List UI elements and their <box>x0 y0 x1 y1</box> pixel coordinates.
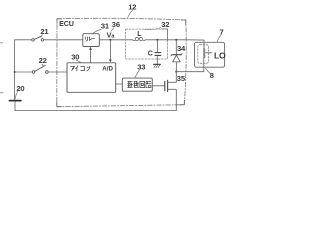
zener diode 34 <box>175 39 177 41</box>
wire: switch 22 to microcomputer <box>48 71 67 73</box>
bottom return rail <box>15 110 176 112</box>
svg-text:22: 22 <box>39 56 47 65</box>
leader 21 <box>41 35 42 36</box>
left vertical rail <box>14 40 16 100</box>
drive circuit box 33 <box>122 78 152 91</box>
svg-text:LO: LO <box>214 50 226 60</box>
leader 32 dash-dot <box>144 28 161 30</box>
svg-text:7: 7 <box>220 27 224 36</box>
svg-text:31: 31 <box>101 22 110 31</box>
switch 21 <box>32 39 35 42</box>
leader 20 <box>15 91 18 99</box>
wire: relay to inductor <box>99 39 132 41</box>
node Va <box>109 39 111 41</box>
leader 31 <box>93 29 102 33</box>
node drain junction <box>175 71 177 73</box>
wire: micro to drive circuit <box>116 83 123 85</box>
svg-text:21: 21 <box>40 27 49 36</box>
leader 30 <box>76 60 81 62</box>
battery lower lead <box>14 102 16 111</box>
leader 22 <box>42 64 43 66</box>
heater coil <box>203 48 205 58</box>
node capacitor tap <box>156 39 158 41</box>
svg-text:A/D: A/D <box>102 65 113 72</box>
kanji 回 <box>140 81 145 87</box>
svg-text:36: 36 <box>112 20 120 29</box>
relay box 31 <box>83 34 100 47</box>
ECU dash-dot box 12 <box>57 18 186 106</box>
microcomputer box 30 <box>67 63 116 93</box>
svg-text:33: 33 <box>137 62 145 71</box>
leader 36 <box>111 28 114 31</box>
battery 20 plate <box>9 100 21 102</box>
svg-text:32: 32 <box>161 20 169 29</box>
svg-text:a: a <box>111 34 115 40</box>
leader 7 <box>217 35 221 42</box>
kanji 動 <box>134 81 139 87</box>
wire: switch 21 to relay box <box>44 39 83 41</box>
arrow: microcomputer to relay <box>90 50 92 63</box>
wire: supply into heater <box>186 40 204 49</box>
svg-text:C: C <box>148 50 153 57</box>
left edge tick upper <box>0 42 3 44</box>
svg-text:ECU: ECU <box>59 19 74 28</box>
leader 33 <box>135 70 139 77</box>
switch 22 <box>32 71 35 74</box>
wire: top rail from battery corner to switch 21 <box>15 39 32 41</box>
left edge tick lower <box>0 92 3 94</box>
svg-text:12: 12 <box>128 2 136 11</box>
leader 12 <box>128 10 133 18</box>
wire: rail to switch 22 <box>15 71 33 73</box>
sensor box 7 (LO) <box>195 42 225 67</box>
wire: heater return to sensor <box>176 57 204 71</box>
ECU corner brackets <box>57 19 186 107</box>
wire: drive circuit to gate <box>152 85 164 87</box>
box 32 solid corner <box>162 29 168 41</box>
svg-text:30: 30 <box>71 52 79 61</box>
wire: inductor to diode junction <box>145 39 185 41</box>
svg-text:8: 8 <box>210 71 214 80</box>
svg-text:34: 34 <box>177 44 186 53</box>
katakana maikon <box>70 66 90 71</box>
kanji 駆 <box>128 81 133 87</box>
kanji 路 <box>146 82 151 88</box>
heater dashed box 8 <box>198 45 209 64</box>
ground <box>154 63 161 65</box>
relay text (katakana rire-) <box>85 37 94 41</box>
heater tap stub <box>206 52 212 54</box>
node on left rail <box>14 71 16 73</box>
svg-text:35: 35 <box>177 74 186 83</box>
mosfet 35 <box>164 81 166 91</box>
leader 8 <box>206 68 211 73</box>
filter dashed box 32 <box>126 29 168 59</box>
arrow: Va sense to A/D <box>109 40 111 60</box>
